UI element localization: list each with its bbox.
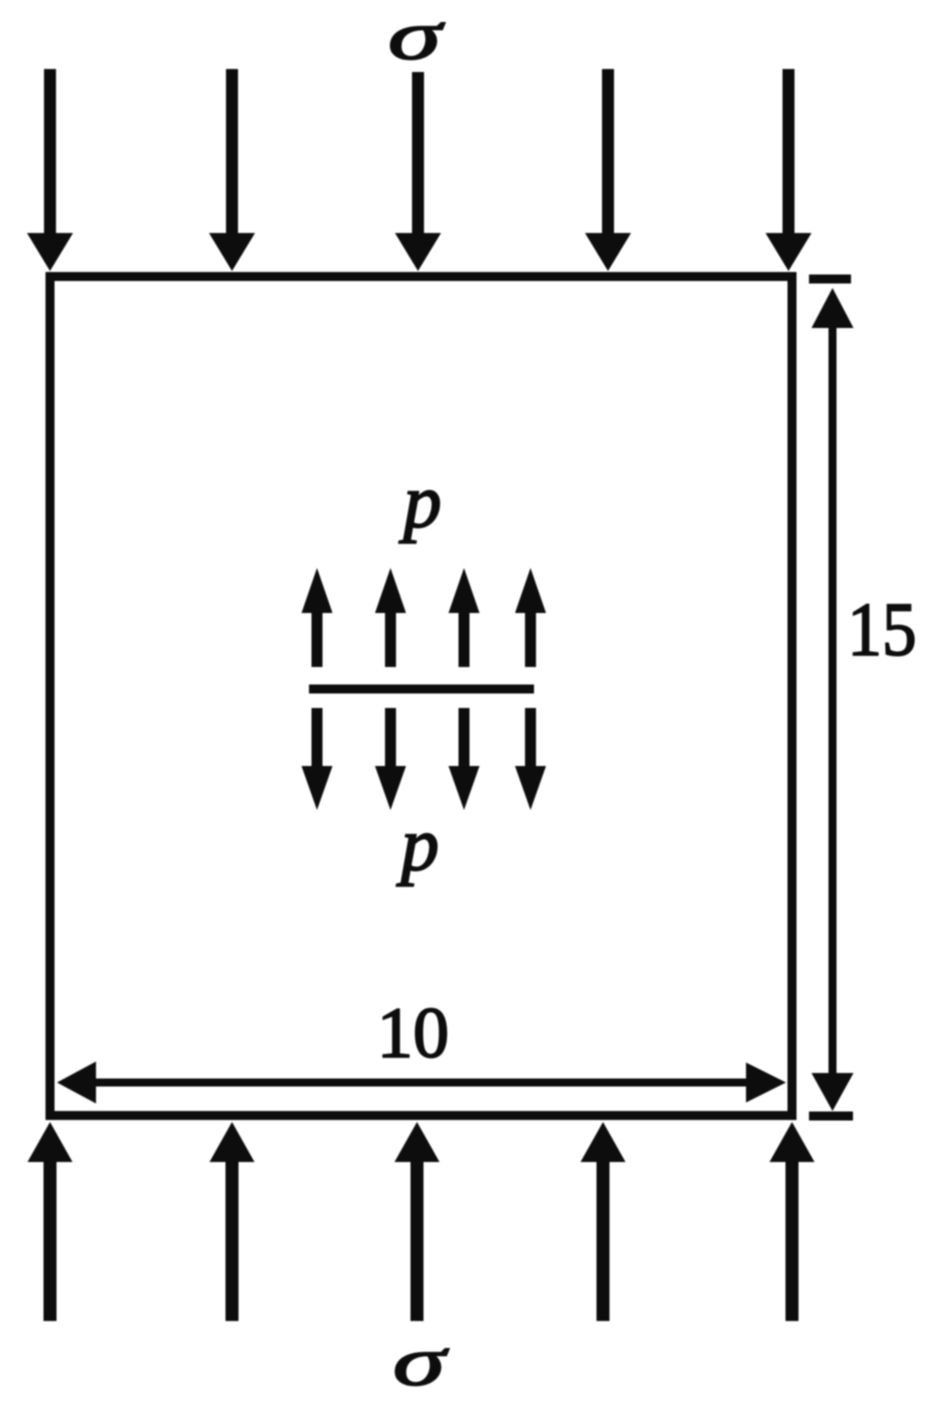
top stress arrow 2 <box>209 69 255 271</box>
crack pressure up arrow 3 <box>449 568 480 667</box>
svg-text:p: p <box>396 803 439 887</box>
crack pressure down arrow 4 <box>515 708 546 810</box>
crack pressure down arrow 3 <box>449 708 480 810</box>
svg-text:σ: σ <box>393 1323 450 1401</box>
top stress arrow 5 <box>766 69 812 271</box>
crack pressure up arrow 2 <box>375 568 406 667</box>
svg-text:σ: σ <box>388 0 445 74</box>
bottom stress arrow 3 <box>395 1122 440 1321</box>
crack pressure down arrow 1 <box>302 708 333 810</box>
crack line <box>309 685 534 694</box>
crack pressure up arrow 4 <box>515 568 546 667</box>
width dimension line 10 <box>57 1062 786 1104</box>
bottom stress arrow 4 <box>581 1122 626 1321</box>
height dimension line 15 <box>809 275 854 1121</box>
svg-text:15: 15 <box>847 587 916 672</box>
svg-text:p: p <box>399 460 442 544</box>
svg-text:10: 10 <box>377 993 449 1073</box>
bottom stress arrow 2 <box>210 1122 255 1321</box>
bottom stress arrow 1 <box>28 1122 73 1321</box>
crack pressure up arrow 1 <box>302 568 333 667</box>
crack pressure down arrow 2 <box>375 708 406 810</box>
top stress arrow 4 <box>585 69 631 271</box>
bottom stress arrow 5 <box>770 1122 815 1321</box>
top stress arrow 3 <box>395 72 441 271</box>
top stress arrow 1 <box>27 69 73 271</box>
plate rectangle <box>46 272 797 1120</box>
